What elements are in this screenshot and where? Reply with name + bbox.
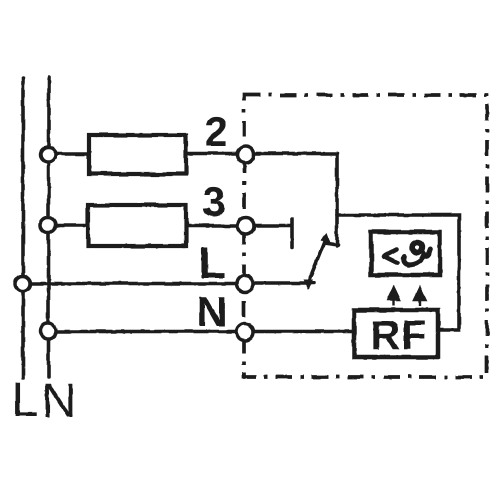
- svg-text:2: 2: [204, 108, 227, 155]
- svg-text:L: L: [12, 374, 39, 427]
- svg-text:N: N: [42, 375, 77, 428]
- svg-text:L: L: [199, 239, 226, 288]
- svg-text:N: N: [197, 288, 227, 335]
- svg-text:RF: RF: [371, 312, 428, 358]
- svg-text:3: 3: [202, 178, 225, 225]
